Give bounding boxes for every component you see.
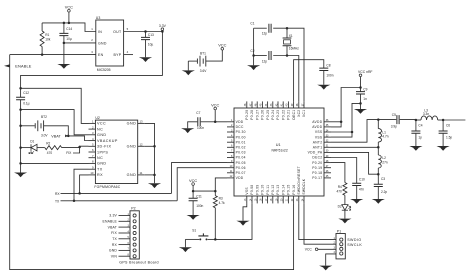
U1 right pins [324, 121, 331, 123]
svg-text:3.3V: 3.3V [159, 24, 167, 28]
ENABLE net label + arrow [4, 64, 10, 67]
svg-text:AVDD: AVDD [312, 120, 322, 124]
svg-text:VSS: VSS [245, 187, 249, 195]
svg-text:U1: U1 [276, 143, 281, 147]
svg-text:EN: EN [98, 53, 104, 57]
svg-text:OUT: OUT [113, 30, 122, 34]
svg-text:10: 10 [90, 171, 94, 175]
junction R3 top [214, 190, 217, 193]
svg-text:DEC2: DEC2 [312, 156, 322, 160]
svg-text:P0.00: P0.00 [236, 135, 246, 139]
wire VCC to U1 VDD pin 12 [193, 178, 227, 191]
svg-text:TX: TX [97, 168, 103, 172]
P1 pin 2 [340, 243, 343, 246]
wire U3 OUT to 3.3V [124, 31, 163, 33]
capacitor C9 1n [360, 88, 362, 92]
ground under C3 [372, 199, 385, 202]
resistor R3 4.7k [214, 191, 216, 196]
capacitor C7 100n [201, 121, 216, 123]
svg-text:VBAT: VBAT [108, 225, 117, 229]
wire VCC nRF to AVDD pins [331, 88, 361, 127]
LED D2 [342, 205, 348, 211]
junction VSS [351, 131, 354, 134]
wire U3 GND pin to C14/ground [64, 42, 96, 44]
U1 top pins [246, 101, 248, 108]
junction D1 / gnd rail [19, 146, 22, 149]
VCC supply over BT1 [221, 48, 224, 51]
gnd rail bottom + ground [20, 110, 22, 173]
svg-text:X1: X1 [289, 34, 293, 38]
svg-text:P0.14: P0.14 [281, 184, 285, 194]
U1 left pins [227, 121, 234, 123]
svg-text:C14: C14 [66, 27, 72, 31]
ground for C7 [181, 128, 194, 131]
svg-text:R2: R2 [46, 142, 50, 146]
svg-text:P0.07: P0.07 [236, 171, 246, 175]
svg-text:P0.26: P0.26 [261, 110, 265, 120]
svg-text:P0.01: P0.01 [236, 140, 246, 144]
svg-text:P0.04: P0.04 [236, 156, 246, 160]
battery BT1 3.6V [188, 60, 197, 62]
svg-text:SWDIO: SWDIO [347, 238, 361, 242]
svg-text:C6: C6 [446, 124, 450, 128]
svg-text:TX: TX [112, 237, 117, 241]
svg-text:RX: RX [97, 173, 103, 177]
junction ANT1/L1/L2 [377, 146, 380, 149]
junction L2 bottom / C3 [377, 173, 380, 176]
ground for U1 VSS [236, 221, 249, 224]
svg-text:XC1: XC1 [302, 110, 306, 117]
svg-text:DEC1: DEC1 [292, 110, 296, 120]
op IC U3 MIC5205 box [96, 20, 124, 66]
svg-text:RX: RX [55, 192, 60, 196]
wire TX row up to nRF P0.06 [177, 168, 227, 201]
antenna stub wire [443, 119, 465, 121]
junction C12 bottom / gnd rail [19, 108, 22, 111]
P2 pin 1 3.3V [119, 215, 131, 217]
capacitor C14 10u [63, 23, 65, 33]
battery BT2 3.0V [21, 125, 35, 127]
svg-text:C1: C1 [250, 22, 254, 26]
wire VCC row to U3 IN [42, 23, 96, 32]
P2 pin 5 TX [119, 238, 131, 240]
junction VCC column [68, 22, 71, 25]
svg-text:P2: P2 [131, 207, 135, 211]
ground under D2 [338, 219, 351, 222]
junction C6 [442, 119, 445, 122]
wire VSS pins to ground node [331, 103, 361, 137]
junction X1 bottom [286, 54, 289, 57]
svg-text:P0.29: P0.29 [245, 110, 249, 120]
ground under C14 [63, 43, 65, 64]
P1 pin 3 [340, 247, 343, 250]
svg-text:BYP: BYP [113, 53, 121, 57]
junction X1 top [286, 27, 289, 30]
svg-text:16MHz: 16MHz [289, 46, 300, 50]
svg-text:P0.16: P0.16 [292, 184, 296, 194]
svg-text:4.7n: 4.7n [382, 135, 388, 139]
svg-text:100n: 100n [196, 204, 203, 208]
svg-text:C9: C9 [363, 87, 367, 91]
svg-text:ANT1: ANT1 [313, 146, 323, 150]
U1 bottom pins [246, 196, 248, 203]
ground for BT1 [187, 61, 189, 70]
svg-text:3.3V: 3.3V [109, 214, 117, 218]
wire 3.3V rail from regulator down-left to GPS VCC [21, 32, 163, 89]
svg-text:XC2: XC2 [297, 110, 301, 117]
svg-text:3.9p: 3.9p [391, 124, 397, 128]
capacitor C8 100n for DEC1 [294, 60, 324, 102]
junction VCC nRF / C9 [359, 86, 362, 89]
svg-text:13: 13 [140, 120, 144, 124]
wire ENABLE row to U3 EN [10, 54, 96, 56]
wire RX row up to nRF P0.05 [172, 163, 228, 194]
ground for P1 [319, 266, 332, 269]
svg-text:VDD_PA: VDD_PA [308, 151, 323, 155]
svg-text:S1: S1 [192, 228, 196, 232]
P2 pin 7 GND [119, 249, 131, 251]
wire gnd rail to U2 pin 8 GND [21, 162, 89, 164]
junction C4 [415, 119, 418, 122]
svg-text:P0.11: P0.11 [266, 185, 270, 195]
capacitor C6 1.5p [442, 120, 444, 131]
svg-text:C11: C11 [196, 194, 202, 198]
ground under C10 [350, 199, 363, 202]
svg-text:SWCLK: SWCLK [347, 243, 362, 247]
svg-text:P0.19: P0.19 [312, 166, 322, 170]
junction C13 top [144, 30, 147, 33]
svg-text:NC: NC [97, 127, 103, 131]
junction gnd rail / pin8 row [19, 162, 22, 165]
svg-text:C10: C10 [359, 177, 365, 181]
svg-text:P0.28: P0.28 [250, 110, 254, 120]
svg-text:VCC: VCC [218, 43, 226, 48]
capacitor C4 1p [415, 120, 417, 131]
svg-text:C5: C5 [392, 113, 396, 117]
svg-text:P0.30: P0.30 [236, 130, 246, 134]
capacitor C3 2.2p [377, 174, 379, 184]
resistor R2 470 [37, 147, 45, 149]
inductor L1 4.7n [377, 120, 379, 129]
junction S1/R3 [214, 238, 217, 241]
svg-text:ANT2: ANT2 [313, 140, 323, 144]
svg-text:SWDIO/nRESET: SWDIO/nRESET [297, 166, 301, 195]
svg-text:1n: 1n [363, 97, 367, 101]
svg-text:12: 12 [140, 143, 144, 147]
svg-text:10µ: 10µ [148, 42, 154, 46]
svg-text:NC: NC [97, 156, 103, 160]
ground for S1 [184, 239, 186, 247]
svg-text:GND: GND [127, 173, 137, 177]
ground under C6 [437, 146, 450, 149]
junction VCC/C11 [192, 190, 195, 193]
wire U2 TX pin to TX row [74, 169, 172, 201]
svg-text:VCC: VCC [65, 5, 73, 10]
svg-text:DCC: DCC [236, 125, 244, 129]
svg-text:P0.18: P0.18 [312, 171, 322, 175]
svg-text:U3: U3 [96, 16, 101, 20]
svg-text:3.3n: 3.3n [423, 112, 429, 116]
svg-text:C13: C13 [148, 33, 154, 37]
junction C2 left [252, 54, 255, 57]
svg-text:C4: C4 [418, 124, 422, 128]
inductor L2 27n [377, 147, 379, 155]
svg-text:R4: R4 [338, 185, 342, 189]
svg-text:BT1: BT1 [200, 51, 206, 55]
svg-text:100n: 100n [197, 126, 204, 130]
svg-text:VSS: VSS [315, 135, 323, 139]
P2 pin 3 VBAT [119, 226, 131, 228]
wire U3 BYP stub [124, 54, 133, 56]
svg-text:C2: C2 [250, 49, 254, 53]
svg-text:VDD: VDD [236, 176, 244, 180]
svg-text:D1: D1 [30, 139, 34, 143]
IC U2 FGPMMOPA6C box [95, 120, 137, 183]
P1 pin 4 [340, 252, 343, 255]
svg-text:11: 11 [140, 171, 143, 175]
resistor R4 470 [343, 183, 347, 196]
svg-text:VCC: VCC [189, 178, 197, 183]
ground for C1/C2 [247, 65, 260, 68]
svg-text:VCC: VCC [97, 122, 106, 126]
svg-text:P0.06: P0.06 [236, 166, 246, 170]
svg-text:P0.23: P0.23 [276, 110, 280, 120]
svg-text:P0.24: P0.24 [271, 110, 275, 120]
VCC nRF supply [359, 74, 362, 77]
wire U2 RX pin to RX row [80, 175, 172, 194]
svg-text:P1: P1 [337, 229, 341, 233]
svg-text:1PPS: 1PPS [97, 150, 108, 154]
svg-text:VCC: VCC [305, 248, 313, 252]
svg-text:2.2p: 2.2p [381, 190, 387, 194]
inductor L3 3.3n [416, 119, 421, 121]
junction C14 bottom / U3 GND row [63, 42, 66, 45]
svg-text:P0.25: P0.25 [266, 110, 270, 120]
svg-text:NRF51x22: NRF51x22 [272, 149, 288, 153]
svg-text:VBAT: VBAT [51, 134, 61, 138]
junction R1 bottom / ENABLE row [41, 53, 44, 56]
svg-text:VCC: VCC [211, 102, 219, 107]
svg-text:VDD: VDD [236, 120, 244, 124]
VCC supply near U1 VDD pin12 [192, 183, 195, 186]
P2 pin 8 VIN [119, 255, 131, 257]
P2 pin 6 RX [119, 244, 131, 246]
svg-text:GND: GND [127, 122, 137, 126]
VCC supply near U1 VDD pin1 [214, 107, 217, 110]
svg-text:FGPMMOPA6C: FGPMMOPA6C [94, 185, 120, 189]
svg-text:GND: GND [127, 145, 137, 149]
svg-text:P0.12: P0.12 [271, 184, 275, 194]
svg-text:P0.08: P0.08 [250, 184, 254, 194]
svg-text:GND: GND [98, 41, 107, 45]
svg-text:3.0V: 3.0V [41, 134, 48, 138]
svg-text:P0.27: P0.27 [255, 110, 259, 120]
svg-text:VIN: VIN [111, 254, 118, 258]
wire P0.20 to R4 [331, 163, 345, 183]
junction FIX [78, 146, 81, 149]
junction C9 gnd / VSS wire [359, 102, 362, 105]
capacitor C11 100n [192, 191, 194, 198]
svg-text:ENABLE: ENABLE [103, 220, 118, 224]
svg-text:P0.21: P0.21 [287, 110, 291, 120]
svg-text:12p: 12p [262, 32, 268, 36]
svg-text:FIX: FIX [111, 231, 117, 235]
svg-text:4.7k: 4.7k [219, 201, 225, 205]
crystal X1 16MHz [286, 28, 288, 38]
svg-text:P0.09: P0.09 [255, 184, 259, 194]
svg-text:GND: GND [109, 249, 117, 253]
ground for U2 [148, 183, 161, 186]
junction TX [73, 200, 76, 203]
svg-text:P0.17: P0.17 [312, 176, 322, 180]
svg-text:470: 470 [47, 151, 53, 155]
svg-text:AVDD: AVDD [312, 125, 322, 129]
wire ENABLE left rail [10, 55, 294, 270]
svg-text:100n: 100n [326, 73, 333, 77]
capacitor C13 10u [145, 32, 147, 38]
wire U2 right GND rail [145, 123, 155, 183]
svg-text:P0.15: P0.15 [287, 184, 291, 194]
wire P1 pin4 to ground [326, 254, 336, 266]
svg-text:P0.13: P0.13 [276, 184, 280, 194]
svg-text:47n: 47n [359, 188, 365, 192]
svg-text:P0.22: P0.22 [281, 110, 285, 120]
svg-text:D2: D2 [338, 205, 342, 209]
ground under C13 [139, 57, 152, 60]
ground under C4 [409, 146, 422, 149]
svg-text:1.5p: 1.5p [446, 136, 452, 140]
LED D1 [21, 147, 31, 149]
wire R2 to U2 3D-FIX pin 5 [62, 146, 89, 147]
svg-text:MIC5205: MIC5205 [97, 68, 111, 72]
svg-text:0.1µ: 0.1µ [23, 102, 29, 106]
svg-text:SWDCLK: SWDCLK [302, 178, 306, 194]
wire 3.3V over to U2 VCC pin 1 [21, 88, 89, 123]
wire U1 VSS pin13 to ground [243, 203, 247, 220]
P1 pin 1 [340, 238, 343, 241]
junction AVDD [340, 121, 343, 124]
capacitor C10 47n [352, 183, 361, 185]
svg-text:VSS: VSS [315, 130, 323, 134]
junction RX [78, 192, 81, 195]
wire gnd row to U2 pin3 GND [21, 110, 89, 135]
wire DEC2 to C10 [331, 158, 357, 184]
svg-text:GND: GND [97, 162, 107, 166]
junction C7/VCC [214, 121, 217, 124]
svg-text:U2: U2 [95, 116, 100, 120]
svg-text:VCC nRF: VCC nRF [358, 70, 373, 74]
junction L1 top [377, 118, 380, 121]
svg-text:RX: RX [112, 243, 118, 247]
svg-text:C12: C12 [23, 91, 29, 95]
svg-text:C8: C8 [326, 64, 330, 68]
ground for C11 [187, 215, 200, 218]
U2 left pin stubs + names + numbers [89, 122, 96, 124]
svg-text:VBACKUP: VBACKUP [97, 139, 118, 143]
svg-text:BT2: BT2 [41, 115, 47, 119]
svg-text:10µ: 10µ [66, 37, 72, 41]
svg-text:IN: IN [98, 30, 102, 34]
svg-text:12p: 12p [262, 60, 268, 64]
svg-text:470: 470 [336, 190, 342, 194]
3.3V supply label [161, 28, 164, 31]
wire VBAT to U2 VBACKUP pin 4 [68, 136, 88, 141]
svg-text:ENABLE: ENABLE [15, 64, 32, 69]
ground under C9 [354, 109, 367, 112]
wire VDD_PA to L2 bottom [331, 152, 378, 174]
svg-text:1p: 1p [418, 136, 422, 140]
junction VBAT [67, 135, 70, 138]
capacitor C5 3.9p [397, 115, 399, 124]
wire SWDIO from U1 pin23 to P1 [299, 203, 336, 239]
P2 pin 2 ENABLE [119, 220, 131, 222]
svg-text:FIX: FIX [66, 151, 72, 155]
P2 pin 4 FIX [119, 232, 131, 234]
wire ANT2 to matching row [331, 120, 395, 143]
svg-text:P0.20: P0.20 [312, 161, 322, 165]
ground under C8 [317, 85, 330, 88]
svg-text:P0.03: P0.03 [236, 151, 246, 155]
wire C1/C2 left common to ground [253, 28, 255, 65]
wire SWDCLK from U1 pin24 to P1 [304, 203, 336, 244]
capacitor C2 12p [254, 55, 267, 57]
junction BT2 minus / gnd rail [19, 125, 22, 128]
VCC supply (top-left) [68, 10, 71, 13]
svg-text:3D-FIX: 3D-FIX [97, 145, 111, 149]
U2 right pins GND 13/12/11 [138, 122, 145, 124]
svg-text:C7: C7 [196, 111, 200, 115]
wire ANT1 to L1/L2 junction [331, 146, 378, 148]
svg-text:3.6V: 3.6V [200, 69, 207, 73]
svg-text:P0.05: P0.05 [236, 161, 246, 165]
junction 3.3V / C12 top [19, 87, 22, 90]
resistor R1 10k [41, 23, 43, 31]
svg-text:P0.02: P0.02 [236, 146, 246, 150]
capacitor C1 12p [254, 27, 267, 29]
junction C14 top [63, 22, 66, 25]
svg-text:10k: 10k [45, 37, 51, 41]
svg-text:P0.10: P0.10 [261, 184, 265, 194]
svg-text:27n: 27n [382, 160, 388, 164]
svg-text:GND: GND [97, 133, 107, 137]
svg-text:C3: C3 [381, 177, 385, 181]
svg-text:GPS Breakout Board: GPS Breakout Board [119, 260, 159, 264]
